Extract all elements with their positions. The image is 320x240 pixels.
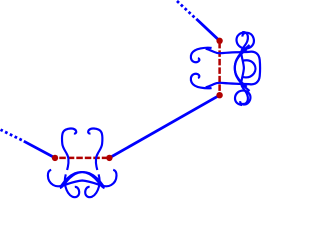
wire: dotted continuation to left edge	[1, 130, 22, 140]
wire: solid strand from left dot of left tangle	[24, 141, 55, 158]
right tangle blue curve (slightly larger)	[191, 32, 260, 105]
wire: connector strand between tangles	[109, 95, 219, 158]
wire: dotted continuation top-right corner	[177, 1, 195, 17]
right tangle red arc and dots	[216, 38, 222, 99]
wire: solid strand to top dot of right tangle	[196, 19, 219, 41]
left tangle red arc and dots	[52, 155, 113, 161]
left tangle blue curve	[48, 128, 117, 197]
